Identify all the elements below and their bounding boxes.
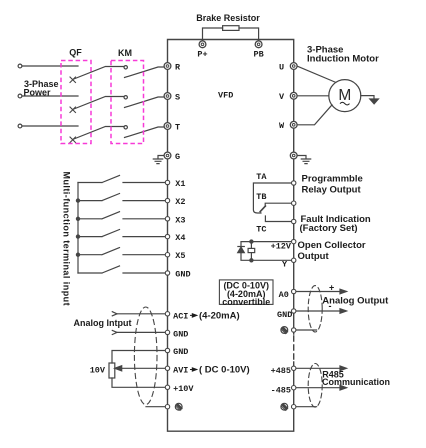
wire ACI: [117, 313, 165, 315]
relay TB wire: [265, 203, 291, 206]
svg-text:M: M: [338, 87, 351, 104]
terminal A0: [292, 289, 296, 293]
svg-text:ACI: ACI: [173, 311, 188, 321]
svg-text:GND: GND: [277, 310, 292, 320]
multi-function input bus: [77, 183, 79, 274]
wire G terminal to earth (left): [158, 156, 164, 159]
svg-text:(4-20mA): (4-20mA): [199, 311, 240, 322]
junction bus X5: [76, 253, 79, 256]
svg-text:P+: P+: [197, 50, 207, 60]
earth symbol circle analog input: [175, 403, 182, 410]
breaker box QF: [61, 61, 91, 144]
wire motor earth: [361, 96, 374, 99]
label motor tilde: [340, 102, 350, 105]
svg-text:TB: TB: [256, 192, 266, 202]
VFD box right edge dashed segment: [293, 336, 295, 360]
svg-text:X2: X2: [175, 197, 185, 207]
wire A0 output: [296, 291, 343, 293]
terminal P+: [199, 41, 206, 48]
breaker QF pole 1 blade: [73, 67, 125, 80]
node KM fixed contact 1: [124, 66, 127, 69]
terminal TA: [292, 181, 296, 185]
wire earth analog output shield: [296, 329, 317, 331]
switch X3: [78, 212, 165, 219]
svg-text:W: W: [279, 121, 285, 131]
wire -485: [296, 387, 343, 389]
ground earth below right edge: [301, 159, 310, 164]
svg-text:Analog Output: Analog Output: [322, 296, 389, 307]
earth symbol circle analog output: [281, 327, 288, 334]
svg-text:Power: Power: [24, 88, 52, 98]
wire earth rs485 shield: [296, 406, 317, 408]
terminal X2: [165, 198, 169, 202]
node input L3: [18, 124, 22, 128]
terminal GND analog output: [292, 309, 296, 313]
svg-text:X3: X3: [175, 215, 185, 225]
svg-text:( DC 0-10V): ( DC 0-10V): [199, 365, 250, 376]
breaker QF pole 3 X contact: [70, 137, 76, 143]
svg-text:10V: 10V: [90, 365, 106, 375]
terminal Y: [292, 258, 296, 262]
svg-text:V: V: [279, 92, 285, 102]
ground chassis at motor: [370, 99, 379, 104]
svg-text:Analog Intput: Analog Intput: [74, 318, 132, 328]
terminal +485: [292, 366, 296, 370]
node KM fixed contact 2: [124, 96, 127, 99]
svg-text:X1: X1: [175, 179, 185, 189]
switch X1: [78, 175, 165, 182]
terminal W: [290, 121, 297, 128]
svg-text:G: G: [175, 152, 180, 162]
wire pot bottom to +10V: [112, 378, 165, 387]
svg-text:S: S: [175, 92, 180, 102]
wire motor V: [297, 95, 329, 97]
terminal R: [164, 63, 171, 70]
terminal X4: [165, 234, 169, 238]
diode cathode bar: [238, 246, 244, 248]
terminal G: [164, 152, 171, 159]
svg-text:Output: Output: [298, 251, 330, 262]
svg-text:TC: TC: [256, 224, 266, 234]
svg-text:Induction Motor: Induction Motor: [307, 53, 379, 64]
svg-text:R: R: [175, 62, 181, 72]
svg-text:Communication: Communication: [322, 377, 390, 387]
svg-text:T: T: [175, 122, 180, 132]
wire +485: [296, 367, 343, 369]
terminal X3: [165, 217, 169, 221]
switch GND row: [78, 266, 165, 273]
svg-text:PB: PB: [253, 50, 263, 60]
svg-text:VFD: VFD: [218, 91, 233, 101]
svg-text:Programmble: Programmble: [302, 173, 363, 184]
svg-text:X5: X5: [175, 251, 185, 261]
svg-text:Brake Resistor: Brake Resistor: [196, 13, 260, 23]
wire GND analog output: [296, 310, 343, 312]
terminal PB: [255, 41, 262, 48]
VFD main box: [168, 40, 294, 432]
svg-text:Y: Y: [282, 259, 288, 269]
relay TC wire: [265, 216, 291, 222]
shield ellipse analog input: [134, 307, 157, 405]
terminal ground right: [290, 152, 297, 159]
terminal earth analog output: [292, 328, 296, 332]
svg-text:Multi-function terminal input: Multi-function terminal input: [62, 172, 72, 307]
earth symbol circle rs485: [281, 403, 288, 410]
terminal S: [164, 93, 171, 100]
svg-text:U: U: [279, 62, 284, 72]
svg-text:QF: QF: [69, 48, 82, 58]
3-phase input row 2 wire: [22, 95, 78, 97]
terminal TB: [292, 201, 296, 205]
relay blade TB-TA: [260, 206, 265, 212]
terminal GND avi: [165, 348, 169, 352]
svg-text:GND: GND: [175, 270, 190, 280]
svg-text:GND: GND: [173, 347, 188, 357]
wire brake resistor loop: [203, 28, 259, 42]
switch X5: [78, 248, 165, 255]
terminal AVI: [165, 366, 169, 370]
wire GND to pot top: [112, 351, 165, 364]
convertible note box: [219, 280, 273, 305]
terminal earth rs485: [292, 405, 296, 409]
svg-text:+485: +485: [271, 366, 291, 376]
junction bus X3: [76, 217, 79, 220]
terminal +10V: [165, 385, 169, 389]
switch X2: [78, 194, 165, 201]
svg-text:-485: -485: [271, 385, 291, 395]
terminal U: [290, 63, 297, 70]
svg-text:GND: GND: [173, 330, 188, 340]
contactor box KM: [111, 61, 144, 144]
contactor KM pole 1 blade: [125, 67, 165, 78]
svg-text:X4: X4: [175, 233, 185, 243]
arrow +485: [340, 366, 347, 371]
switch X4: [78, 230, 165, 237]
terminal GND aci: [165, 330, 169, 334]
resistor body open collector: [248, 248, 255, 252]
breaker QF pole 1 X contact: [70, 77, 76, 83]
node KM fixed contact 3: [124, 126, 127, 129]
wire right-edge ground to earth: [297, 156, 306, 159]
svg-text:convertible: convertible: [222, 297, 270, 307]
breaker QF pole 2 blade: [73, 97, 125, 110]
open collector loop wire: [241, 242, 292, 261]
svg-text:KM: KM: [118, 48, 132, 58]
junction bus X2: [76, 199, 79, 202]
svg-text:TA: TA: [256, 172, 267, 182]
3-phase input row 1 wire: [22, 65, 78, 67]
arrow A0: [340, 289, 347, 294]
terminal X5: [165, 253, 169, 257]
terminal V: [290, 92, 297, 99]
wire motor U: [297, 66, 336, 82]
terminal -485: [292, 386, 296, 390]
junction open collector bottom: [250, 259, 253, 262]
node input L1: [18, 64, 22, 68]
relay TA wire: [253, 183, 291, 213]
motor circle: [329, 80, 361, 112]
3-phase input row 3 wire: [22, 125, 78, 127]
terminal +12V: [292, 239, 296, 243]
arrow -485: [340, 385, 347, 390]
junction open collector top: [250, 240, 253, 243]
wire AVI wiper: [118, 367, 165, 369]
terminal X1: [165, 180, 169, 184]
svg-text:+10V: +10V: [173, 384, 194, 394]
svg-text:+12V: +12V: [271, 241, 292, 251]
svg-text:A0: A0: [279, 290, 289, 300]
contactor KM pole 3 blade: [125, 127, 165, 138]
svg-text:Open Collector: Open Collector: [298, 240, 366, 251]
junction bus X4: [76, 235, 79, 238]
shield ellipse analog output: [308, 286, 322, 332]
chevron ACI input: [112, 312, 117, 316]
node input L2: [18, 94, 22, 98]
shield ellipse rs485: [308, 364, 322, 408]
contactor KM pole 2 blade: [125, 97, 165, 108]
svg-text:Relay Output: Relay Output: [302, 185, 362, 196]
breaker QF pole 3 blade: [73, 127, 125, 140]
terminal ACI: [165, 312, 169, 316]
svg-text:AVI: AVI: [173, 365, 188, 375]
chevron GND input: [112, 330, 117, 334]
terminal TC: [292, 219, 296, 223]
breaker QF pole 2 X contact: [70, 107, 76, 113]
svg-text:+: +: [329, 282, 334, 292]
potentiometer body: [109, 363, 115, 378]
wire motor W: [297, 105, 332, 125]
diode triangle: [238, 247, 245, 253]
wire earth analog input shield: [146, 406, 165, 408]
terminal T: [164, 123, 171, 130]
svg-text:(Factory Set): (Factory Set): [300, 223, 358, 234]
terminal GND input: [165, 271, 169, 275]
arrow wiper: [115, 366, 122, 371]
resistor brake: [223, 26, 239, 31]
resistor branch open collector: [250, 242, 252, 261]
arrow GND analog output: [340, 309, 347, 314]
terminal earth analog input: [165, 405, 169, 409]
wire GND analog input: [117, 331, 165, 333]
ground earth left of G: [153, 159, 162, 164]
